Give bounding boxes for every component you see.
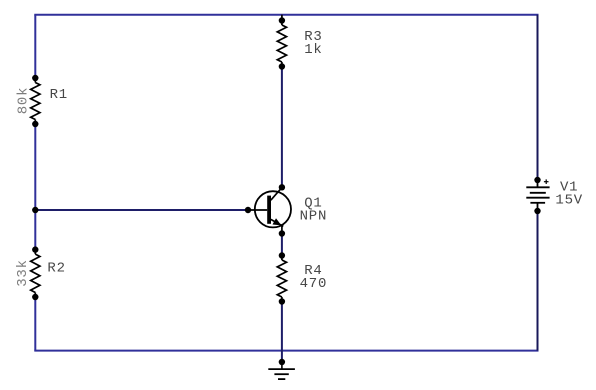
node base terminal: [245, 207, 251, 213]
battery V1: [526, 180, 549, 211]
node battery - terminal: [534, 208, 540, 214]
ground: [268, 362, 295, 379]
svg-text:15V: 15V: [555, 192, 583, 208]
svg-text:33k: 33k: [15, 259, 31, 287]
svg-text:80k: 80k: [16, 87, 32, 115]
wire top rail: [34, 14, 538, 16]
transistor Q1: [248, 188, 291, 234]
wire left rail upper segment: [34, 15, 36, 78]
svg-text:NPN: NPN: [300, 209, 328, 225]
wire collector vertical (R3 to Q1): [281, 67, 283, 188]
node emitter terminal: [279, 230, 285, 236]
wire left rail middle segment: [34, 124, 36, 250]
wire bottom rail: [34, 350, 538, 352]
wire right rail upper segment: [537, 15, 539, 180]
wire base horizontal: [35, 209, 248, 211]
node collector terminal: [279, 184, 285, 190]
svg-text:1k: 1k: [304, 42, 322, 58]
node base junction on left rail: [32, 207, 38, 213]
wire right rail lower segment: [537, 211, 539, 351]
node ground junction: [279, 359, 285, 365]
svg-text:R1: R1: [50, 87, 68, 103]
resistor R4: [277, 256, 286, 302]
wire R4 to ground: [281, 302, 283, 363]
wire left rail lower segment: [34, 296, 36, 351]
battery plus sign: [544, 179, 549, 184]
resistor R1: [31, 78, 40, 124]
svg-text:R2: R2: [47, 261, 65, 277]
resistor R2: [31, 250, 40, 297]
resistor R3: [277, 15, 286, 67]
svg-text:470: 470: [300, 276, 328, 292]
wire emitter vertical (Q1 to R4): [281, 233, 283, 256]
node battery + terminal: [534, 177, 540, 183]
